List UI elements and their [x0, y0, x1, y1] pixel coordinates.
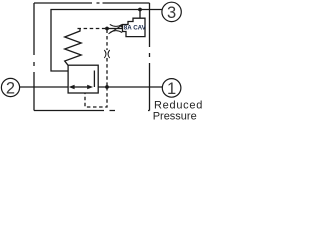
- wire: dashed pilot under main spool: [85, 87, 107, 107]
- pilot relief cartridge outline (8A CAV plug): [123, 18, 146, 36]
- wire: port 2 inlet line: [20, 86, 68, 88]
- internal pilot passage: [93, 71, 95, 88]
- svg-text:Pressure: Pressure: [153, 110, 197, 122]
- adjustable orifice (needle valve) arcs: [110, 24, 122, 32]
- svg-text:2: 2: [6, 79, 15, 97]
- wire: drain junction down to pilot relief plug: [139, 10, 141, 19]
- fixed orifice (control orifice): [104, 50, 109, 58]
- wire: port 1 outlet line: [98, 86, 162, 88]
- svg-text:3: 3: [167, 4, 176, 22]
- node: drain junction: [138, 8, 142, 12]
- port circle 1: [162, 79, 181, 98]
- cartridge envelope bottom: [34, 110, 150, 112]
- node: pilot/port-1 junction: [105, 85, 109, 89]
- wire: pilot sense line down from junction: [106, 29, 108, 34]
- cartridge envelope left: [33, 3, 35, 111]
- cartridge envelope (dash-dot outer boundary) top: [34, 2, 150, 4]
- adjustable orifice arrow: [109, 26, 122, 34]
- spring: [65, 29, 82, 66]
- wire: dashed pilot line to spring chamber: [78, 28, 108, 30]
- port circle 3: [162, 2, 181, 21]
- port circle 2: [1, 78, 19, 96]
- main reducing element box: [68, 65, 98, 93]
- wire: spring-chamber drain line to port 3: [51, 10, 162, 72]
- node: pilot junction: [105, 27, 109, 31]
- svg-text:1: 1: [167, 80, 176, 98]
- cartridge envelope right: [149, 3, 151, 111]
- flow path double arrow inside box: [73, 86, 89, 88]
- wire: pilot line from junction to plug (through adjustable orifice): [107, 28, 123, 30]
- svg-text:8A CAV: 8A CAV: [124, 25, 147, 32]
